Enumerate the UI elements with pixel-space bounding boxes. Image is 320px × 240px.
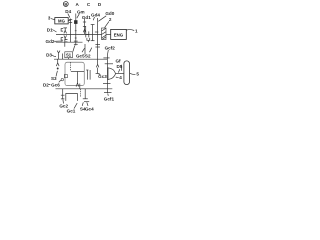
svg-text:5: 5 [136, 72, 139, 77]
svg-text:Gd2: Gd2 [46, 39, 55, 44]
svg-text:Gcf1: Gcf1 [104, 96, 115, 101]
svg-text:MG: MG [58, 19, 66, 24]
svg-text:2: 2 [109, 17, 112, 22]
svg-text:Gd0: Gd0 [105, 11, 114, 16]
svg-text:S3: S3 [51, 76, 57, 81]
svg-text:Gcf2: Gcf2 [105, 45, 116, 50]
svg-text:D3: D3 [46, 52, 52, 57]
svg-text:Gc6: Gc6 [51, 82, 60, 87]
svg-text:Gd1: Gd1 [82, 15, 91, 20]
svg-text:3: 3 [48, 16, 51, 21]
svg-text:S1: S1 [66, 53, 72, 58]
svg-text:D4: D4 [65, 9, 71, 14]
svg-text:Gm: Gm [77, 9, 85, 14]
svg-text:Gd4: Gd4 [91, 12, 100, 17]
svg-text:Gf: Gf [115, 59, 121, 64]
svg-text:B: B [64, 2, 67, 7]
svg-text:D1: D1 [47, 28, 53, 33]
svg-text:D5: D5 [116, 64, 122, 69]
svg-text:4: 4 [119, 75, 122, 80]
svg-text:ENG: ENG [114, 32, 124, 37]
svg-text:Gc4: Gc4 [85, 106, 94, 111]
svg-text:S2: S2 [85, 53, 91, 58]
svg-text:1: 1 [135, 29, 138, 34]
svg-text:Gc5: Gc5 [76, 53, 85, 58]
svg-text:D2: D2 [43, 82, 49, 87]
svg-text:Gc1: Gc1 [67, 108, 76, 113]
svg-text:Gc3: Gc3 [98, 74, 107, 79]
